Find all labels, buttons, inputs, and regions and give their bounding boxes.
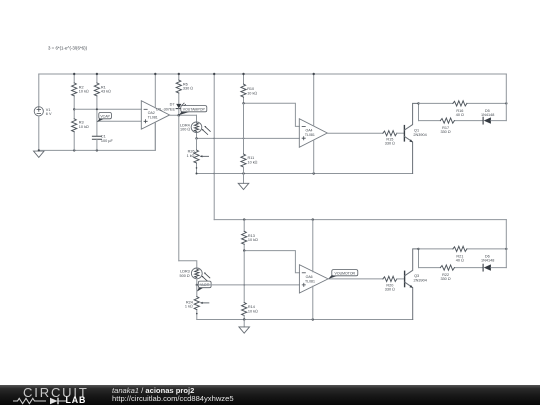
wire OA4 V- stub: [313, 140, 315, 173]
wire LDR4 bottom to OA4 + input: [197, 137, 300, 139]
resistor R2: [72, 74, 89, 109]
wire right vertical (bottom stage): [505, 220, 507, 268]
svg-text:VOUTAMPOP: VOUTAMPOP: [183, 107, 206, 111]
resistor R6: [176, 74, 193, 104]
potentiometer R26: [187, 138, 209, 173]
wire R10-R11 link: [243, 103, 245, 154]
svg-text:R1: R1: [101, 85, 106, 89]
wire R1 to C1 (VCAP node): [96, 109, 98, 136]
resistor R13: [242, 220, 258, 251]
wire OA2 output: [170, 114, 197, 116]
svg-text:TL081: TL081: [148, 115, 158, 119]
wire OA2 V+ stub: [154, 74, 156, 108]
svg-text:10 kΩ: 10 kΩ: [247, 91, 257, 95]
svg-text:C1: C1: [101, 135, 106, 139]
node R2/R3 midpoint: [73, 108, 75, 110]
wire collector branch split (bottom): [418, 249, 420, 268]
wire VCAP tap to OA2 + input: [97, 120, 141, 122]
resistor R11: [241, 154, 258, 174]
svg-text:330 Ω: 330 Ω: [183, 87, 193, 91]
svg-text:OA4: OA4: [306, 129, 313, 133]
svg-text:1N4148: 1N4148: [481, 113, 494, 117]
node flag VOUTAMPOP: [179, 106, 207, 116]
svg-text:V1: V1: [46, 108, 51, 112]
resistor R14: [242, 303, 258, 320]
LED D7 LTL-307EE: [156, 103, 186, 116]
svg-text:10 kΩ: 10 kΩ: [248, 160, 258, 164]
wire bottom ground rail: [197, 319, 413, 321]
svg-text:100 Ω: 100 Ω: [180, 128, 190, 132]
wire right vertical (top stage): [505, 74, 507, 121]
resistor R21: [419, 246, 507, 262]
resistor R15: [383, 131, 405, 146]
potentiometer R24: [185, 285, 209, 320]
diode D5 1N4148: [481, 109, 506, 124]
wire 6V feed to bottom stage: [213, 74, 215, 220]
node VOUTAMPOP junction: [178, 114, 181, 117]
op-amp OA4 TL081: [299, 119, 327, 148]
wire OA4 output: [327, 132, 383, 134]
svg-text:2N3904: 2N3904: [413, 133, 426, 137]
svg-text:40 Ω: 40 Ω: [456, 259, 464, 263]
node flag VCAP: [97, 113, 112, 123]
svg-text:OA2: OA2: [148, 111, 155, 115]
svg-text:R26: R26: [188, 150, 195, 154]
svg-text:LTL-307EE: LTL-307EE: [156, 107, 175, 111]
svg-text:R11: R11: [248, 156, 255, 160]
svg-text:330 Ω: 330 Ω: [385, 287, 395, 291]
node flag VLDR: [197, 281, 211, 292]
svg-text:LDR4: LDR4: [180, 123, 190, 127]
resistor R16: [419, 101, 507, 117]
svg-text:100 µF: 100 µF: [101, 139, 114, 143]
svg-text:VOUMOTOR: VOUMOTOR: [335, 271, 356, 275]
svg-text:R2: R2: [79, 85, 84, 89]
resistor R3: [72, 109, 89, 150]
photoresistor LDR3: [179, 268, 209, 285]
ground (V1): [34, 151, 45, 157]
wire VOUTAMPOP to LDR3: [179, 261, 197, 268]
wire V1 top lead: [38, 74, 40, 107]
svg-text:500 Ω: 500 Ω: [179, 274, 189, 278]
svg-text:LDR3: LDR3: [180, 270, 190, 274]
wire top supply rail: [39, 73, 507, 75]
svg-text:R24: R24: [186, 300, 193, 304]
node flag VOUMOTOR: [328, 270, 358, 279]
svg-text:2N3904: 2N3904: [414, 279, 427, 283]
photoresistor LDR4: [180, 115, 210, 138]
svg-text:10 kΩ: 10 kΩ: [248, 238, 258, 242]
svg-text:10 kΩ: 10 kΩ: [248, 309, 258, 313]
resistor R10: [241, 74, 257, 103]
wire R13 tap to OA6 - input: [244, 251, 299, 273]
svg-text:R3: R3: [79, 121, 84, 125]
wire OA6 V- stub: [312, 286, 314, 319]
svg-text:TL081: TL081: [305, 279, 315, 283]
wire V1 bottom lead: [38, 116, 40, 150]
wire left ground rail: [39, 122, 156, 150]
wire R10 tap to OA4 - input: [244, 103, 300, 126]
wire VOUTAMPOP down to bottom stage: [178, 115, 180, 261]
capacitor C1: [92, 135, 113, 151]
logo squiggle: [13, 397, 69, 405]
resistor R17: [419, 118, 484, 134]
svg-text:1 kΩ: 1 kΩ: [187, 154, 195, 158]
svg-text:R14: R14: [248, 305, 255, 309]
node: R3/C1 bottoms: [73, 149, 75, 151]
resistor R20: [383, 276, 405, 291]
svg-text:3 = 6*(1-e^(-3/(6*6)): 3 = 6*(1-e^(-3/(6*6)): [48, 46, 88, 51]
svg-text:Q1: Q1: [414, 129, 419, 133]
wire to OA2 inverting input: [74, 108, 141, 110]
svg-text:OA6: OA6: [306, 275, 313, 279]
svg-text:Q3: Q3: [414, 274, 419, 278]
wire LDR3 bottom to OA6 + input: [197, 284, 300, 286]
wire OA6 V+ stub: [312, 220, 314, 272]
wire OA4 V+ stub: [313, 74, 315, 126]
wire OA2 V- stub: [154, 122, 156, 150]
svg-text:330 Ω: 330 Ω: [440, 277, 450, 281]
transistor Q1 2N3904: [404, 103, 426, 173]
svg-text:1N4148: 1N4148: [481, 259, 494, 263]
op-amp OA6 TL081: [299, 265, 328, 293]
op-amp OA2 TL081: [141, 101, 169, 130]
wire collector branch split: [418, 103, 420, 120]
resistor R22: [419, 265, 484, 281]
svg-text:TL081: TL081: [305, 133, 315, 137]
diode D6 1N4148: [481, 255, 506, 271]
svg-text:D7: D7: [170, 103, 175, 107]
resistor R1: [94, 74, 111, 109]
svg-text:330 Ω: 330 Ω: [440, 130, 450, 134]
svg-text:6 V: 6 V: [46, 112, 52, 116]
svg-text:43 kΩ: 43 kΩ: [101, 90, 111, 94]
ground (bottom): [239, 320, 250, 334]
wire OA6 output: [328, 278, 383, 280]
wire R13-R14 link: [243, 251, 245, 303]
transistor Q3 2N3904: [405, 249, 427, 320]
wire bottom stage supply rail: [214, 219, 506, 221]
svg-text:R10: R10: [247, 87, 254, 91]
svg-text:10 kΩ: 10 kΩ: [79, 90, 89, 94]
svg-text:330 Ω: 330 Ω: [385, 142, 395, 146]
svg-text:R13: R13: [248, 234, 255, 238]
svg-text:1 kΩ: 1 kΩ: [185, 305, 193, 309]
wire emitter ground rail: [197, 173, 413, 175]
ground (mid): [238, 174, 249, 190]
svg-text:R6: R6: [183, 82, 188, 86]
svg-text:10 kΩ: 10 kΩ: [79, 125, 89, 129]
voltage source V1: [34, 107, 52, 116]
svg-text:R15: R15: [386, 137, 393, 141]
svg-text:40 Ω: 40 Ω: [456, 113, 464, 117]
svg-text:VCAP: VCAP: [100, 114, 110, 118]
